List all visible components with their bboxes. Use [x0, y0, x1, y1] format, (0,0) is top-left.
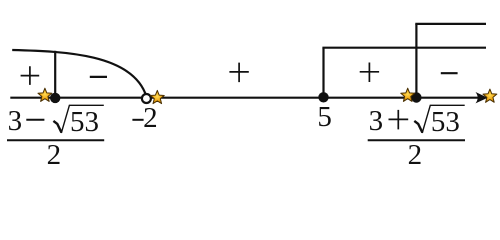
svg-text:53: 53 — [431, 106, 460, 138]
svg-text:5: 5 — [317, 101, 332, 133]
svg-text:2: 2 — [47, 139, 62, 171]
svg-text:3: 3 — [369, 105, 384, 137]
svg-text:2: 2 — [408, 139, 423, 171]
svg-text:53: 53 — [70, 106, 99, 138]
svg-text:2: 2 — [143, 102, 158, 134]
svg-text:3: 3 — [8, 105, 23, 137]
